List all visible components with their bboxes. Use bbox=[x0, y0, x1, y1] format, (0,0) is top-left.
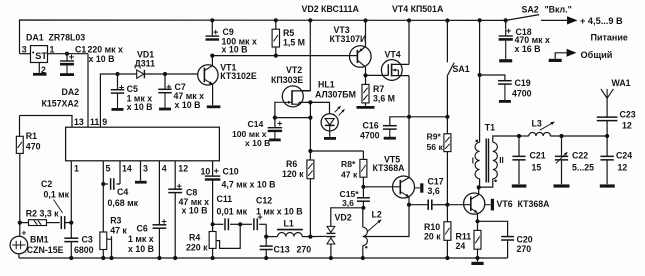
node: VT2 source / HL1 junction bbox=[308, 100, 312, 104]
node: C3 on ground rail bbox=[69, 256, 73, 260]
node: R11/C20 ground junction bbox=[475, 256, 479, 260]
capacitor C12 1uF bbox=[240, 223, 252, 225]
svg-text:C13: C13 bbox=[274, 244, 290, 254]
svg-text:C3: C3 bbox=[82, 235, 93, 245]
svg-text:C21: C21 bbox=[530, 151, 546, 161]
capacitor C17 3.6 bbox=[409, 204, 427, 206]
switch SA2 with label bbox=[506, 15, 540, 21]
svg-text:3: 3 bbox=[22, 45, 27, 55]
transformer T1 secondary winding II bbox=[493, 136, 519, 142]
svg-text:C4: C4 bbox=[117, 187, 128, 197]
inductor L3 tunable bbox=[529, 132, 551, 136]
svg-text:R2 3,3 к: R2 3,3 к bbox=[26, 209, 59, 219]
capacitor C11 0.01uF bbox=[213, 223, 224, 225]
node: R8 / C15 / VT5 base junction bbox=[361, 185, 365, 189]
ground of C19 bbox=[504, 84, 506, 101]
svg-text:VT4: VT4 bbox=[385, 50, 401, 60]
svg-text:SA2: SA2 bbox=[522, 4, 539, 14]
svg-text:C6: C6 bbox=[137, 224, 148, 234]
ground of C5 bbox=[117, 93, 119, 109]
svg-text:DA1: DA1 bbox=[26, 33, 44, 43]
svg-text:К157ХА2: К157ХА2 bbox=[42, 99, 79, 109]
node: C11/C12/R4 junction bbox=[238, 222, 242, 226]
capacitor C3 6800 bbox=[70, 223, 72, 239]
ground of R7 bbox=[357, 106, 375, 109]
microphone BM1 CZN-15E bbox=[10, 236, 28, 254]
capacitor C1 220uF bbox=[66, 54, 68, 61]
node: R2 branch on left rail bbox=[18, 221, 22, 225]
ground of common output bbox=[549, 59, 562, 62]
svg-text:15: 15 bbox=[532, 162, 542, 172]
svg-text:270: 270 bbox=[517, 244, 532, 254]
capacitor C18 470uF bbox=[505, 20, 507, 36]
svg-text:220 к: 220 к bbox=[186, 242, 208, 252]
svg-text:4700: 4700 bbox=[360, 131, 380, 141]
node: R3 on ground rail bbox=[101, 256, 105, 260]
node: R10 on ground rail bbox=[445, 256, 449, 260]
node: C13 on ground rail bbox=[264, 256, 268, 260]
capacitor C9 100uF bbox=[211, 20, 213, 36]
svg-text:КТ3107И: КТ3107И bbox=[330, 34, 367, 44]
svg-text:АЛ307БМ: АЛ307БМ bbox=[315, 89, 356, 99]
svg-text:C22: C22 bbox=[572, 151, 588, 161]
node: C6 on ground rail bbox=[157, 256, 161, 260]
svg-text:VT4 КП501А: VT4 КП501А bbox=[392, 4, 444, 14]
svg-text:4: 4 bbox=[162, 164, 167, 174]
svg-text:C1: C1 bbox=[75, 44, 86, 54]
capacitor C24 12 bbox=[606, 136, 608, 156]
ground of C14 bbox=[274, 131, 276, 140]
svg-text:II: II bbox=[499, 156, 504, 165]
svg-text:0,68 мк: 0,68 мк bbox=[108, 198, 139, 208]
transistor VT6 KT368A bbox=[464, 193, 485, 214]
node: C8 on ground rail bbox=[173, 256, 177, 260]
svg-text:20 к: 20 к bbox=[424, 232, 441, 242]
ground of C7 bbox=[164, 93, 166, 109]
node: top rail junction VT4 drain bbox=[407, 18, 411, 22]
wire: R4 tap loop to C11/C12 node bbox=[216, 224, 240, 248]
node: top rail junction C18 / SA2 contact bbox=[504, 18, 508, 22]
LED HL1 AL307BM bbox=[310, 102, 329, 113]
svg-text:КТ368А: КТ368А bbox=[373, 163, 406, 173]
node: top rail junction R5 bbox=[274, 18, 278, 22]
svg-text:КП303Е: КП303Е bbox=[271, 75, 303, 85]
node: top rail junction VT3 emitter bbox=[363, 18, 367, 22]
svg-text:C12: C12 bbox=[256, 196, 272, 206]
node: VT5 emitter junction bbox=[407, 203, 411, 207]
svg-text:270: 270 bbox=[297, 244, 312, 254]
ground of HL1 bbox=[324, 137, 336, 140]
svg-text:1 мк x 10 В: 1 мк x 10 В bbox=[256, 206, 303, 216]
svg-text:VT2: VT2 bbox=[286, 65, 302, 75]
node: top rail junction SA1 bbox=[445, 18, 449, 22]
svg-text:56 к: 56 к bbox=[427, 142, 444, 152]
svg-text:VT6: VT6 bbox=[497, 199, 513, 209]
ground of C24 bbox=[600, 184, 615, 187]
voltage regulator DA1 ZR78L03 box bbox=[31, 46, 48, 63]
resistor R9* 56k bbox=[444, 134, 451, 152]
svg-text:6800: 6800 bbox=[74, 245, 94, 255]
svg-text:9: 9 bbox=[102, 117, 107, 127]
svg-text:BM1: BM1 bbox=[30, 235, 49, 245]
svg-text:C20: C20 bbox=[517, 234, 533, 244]
switch SA1 bbox=[446, 21, 448, 63]
node: C16 junction on VT4 source line bbox=[407, 115, 411, 119]
svg-text:VD2: VD2 bbox=[335, 213, 352, 223]
svg-text:120 к: 120 к bbox=[282, 169, 304, 179]
antenna WA1 bbox=[601, 89, 607, 98]
transistor VT5 KT368A bbox=[393, 176, 415, 198]
varicap pair VD2 KVS111A bbox=[327, 226, 335, 232]
capacitor C14 100uF bbox=[274, 118, 276, 128]
node: R3 tap on ground rail bbox=[109, 256, 113, 260]
resistor R2 3.3k bbox=[20, 222, 29, 224]
svg-text:0,01 мк: 0,01 мк bbox=[217, 206, 248, 216]
node: C15 / VD2 / L2 junction bbox=[361, 206, 365, 210]
ground of VT1 emitter bbox=[207, 105, 221, 108]
wire: IC pin 9 from C5/VD1 node bbox=[100, 74, 117, 127]
node: L2 on ground rail bbox=[361, 256, 365, 260]
node: C23/C24 junction bbox=[605, 134, 609, 138]
node: VD2 on ground rail bbox=[329, 256, 333, 260]
ground of C21 bbox=[512, 184, 527, 187]
svg-text:L2: L2 bbox=[372, 209, 382, 219]
node: C4 junction on pin5 wire bbox=[101, 182, 105, 186]
svg-text:1: 1 bbox=[50, 45, 55, 55]
svg-text:C14: C14 bbox=[248, 119, 264, 129]
svg-text:C10: C10 bbox=[223, 166, 239, 176]
svg-text:+: + bbox=[22, 227, 27, 237]
wire: IC pin 5 down to R3 bbox=[102, 161, 104, 232]
svg-text:х 16 В: х 16 В bbox=[515, 44, 541, 54]
VT5 case electrode bar bbox=[415, 187, 421, 189]
svg-text:5: 5 bbox=[106, 164, 111, 174]
wire: C14 node to VD2 bias line bbox=[275, 117, 311, 119]
svg-text:C16: C16 bbox=[363, 120, 379, 130]
capacitor C20 270 parallel loop bbox=[478, 221, 508, 236]
wire: IC pin 1 down bbox=[70, 161, 72, 223]
svg-text:SA1: SA1 bbox=[453, 64, 470, 74]
svg-text:+ 4,5...9 В: + 4,5...9 В bbox=[580, 16, 623, 26]
resistor R6 120k bbox=[307, 160, 314, 179]
node: C17 / R10 / VT6 base junction bbox=[445, 203, 449, 207]
node: L1 / VD2 mid / R6 junction bbox=[308, 235, 312, 239]
capacitor C19 4700 bbox=[480, 75, 505, 81]
capacitor C15* 3.6 bbox=[362, 187, 364, 198]
wire: VD1 cathode to VT1 base bbox=[144, 73, 198, 75]
pin 1 of DA1 bbox=[48, 53, 68, 55]
svg-text:х 10 В: х 10 В bbox=[182, 206, 208, 216]
svg-text:3,6: 3,6 bbox=[428, 186, 440, 196]
node: T1 windings / VT6 collector junction bbox=[477, 185, 481, 189]
node: bias line junction bbox=[308, 116, 312, 120]
node: C22 junction bbox=[559, 134, 563, 138]
capacitor C21 15 bbox=[518, 136, 520, 156]
svg-text:х 10 В: х 10 В bbox=[175, 100, 201, 110]
svg-text:12: 12 bbox=[178, 164, 188, 174]
ground of C1 bbox=[66, 64, 68, 74]
wire: T1 primary feed from top rail bbox=[479, 20, 481, 142]
callout line from C2 label to capacitor bbox=[54, 200, 63, 213]
svg-text:11: 11 bbox=[90, 117, 99, 127]
svg-text:КТ368А: КТ368А bbox=[518, 199, 551, 209]
ground of C22 bbox=[554, 184, 570, 187]
resistor R7 3.6M bbox=[365, 75, 367, 84]
wire: IC pin 12 down / capacitor C8 47uF bbox=[174, 161, 176, 189]
ground wire of IC pin 3 bbox=[140, 161, 142, 181]
capacitor C13 270 bbox=[265, 237, 267, 247]
svg-text:R6: R6 bbox=[286, 159, 297, 169]
wire: L2 tap to VT5 emitter line bbox=[363, 205, 409, 237]
svg-text:12: 12 bbox=[618, 162, 628, 172]
svg-text:DA2: DA2 bbox=[62, 87, 80, 97]
svg-text:13: 13 bbox=[74, 117, 84, 127]
node: IC pin1 / C2 / C3 junction bbox=[69, 221, 73, 225]
svg-text:3,6: 3,6 bbox=[342, 198, 354, 208]
inductor L2 tunable bbox=[362, 208, 364, 227]
node: C21 junction bbox=[517, 134, 521, 138]
wire: VT5 base from R8/C15 node bbox=[363, 186, 400, 188]
VT6 case electrode bar bbox=[485, 204, 491, 206]
capacitor C4 0.68uF bbox=[103, 183, 108, 185]
capacitor C16 4700 bbox=[390, 117, 409, 126]
common output arrow bbox=[555, 53, 566, 59]
svg-text:C24: C24 bbox=[616, 151, 632, 161]
svg-text:КТ3102Е: КТ3102Е bbox=[220, 71, 257, 81]
trimmer capacitor C22 5...25 bbox=[561, 136, 563, 156]
svg-text:0,1 мк: 0,1 мк bbox=[44, 189, 70, 199]
wire: IC pin 4 down / capacitor C6 1uF bbox=[158, 161, 160, 225]
transformer T1 core bbox=[485, 139, 487, 183]
resistor R10 20k bbox=[446, 205, 448, 222]
svg-text:CZN-15E: CZN-15E bbox=[27, 245, 64, 255]
svg-text:12: 12 bbox=[622, 120, 632, 130]
svg-text:1,5 М: 1,5 М bbox=[283, 37, 305, 47]
svg-text:10: 10 bbox=[201, 166, 211, 176]
svg-text:х 10 В: х 10 В bbox=[127, 102, 153, 112]
node: top rail junction T1 primary bbox=[478, 18, 482, 22]
transistor VT3 KT3107I bbox=[350, 46, 372, 68]
svg-text:х 10 В: х 10 В bbox=[128, 244, 154, 254]
node: C1 junction bbox=[65, 52, 69, 56]
supply output arrow +4.5...9V bbox=[567, 16, 578, 24]
svg-text:C9: C9 bbox=[223, 27, 234, 37]
svg-text:4700: 4700 bbox=[512, 89, 532, 99]
wire: VT3 collector to VT4 gate bbox=[366, 74, 389, 76]
svg-text:C11: C11 bbox=[217, 194, 233, 204]
svg-text:L1: L1 bbox=[284, 219, 294, 229]
bottom ground rail bbox=[19, 257, 508, 259]
svg-text:I: I bbox=[472, 157, 474, 166]
wire: pin13 feed from left rail bbox=[20, 116, 73, 128]
chassis ground of output stage bbox=[477, 258, 479, 262]
svg-text:C2: C2 bbox=[41, 179, 52, 189]
left rail: from pin13 feed down to BM1 bbox=[19, 116, 21, 137]
svg-text:HL1: HL1 bbox=[318, 80, 335, 90]
svg-text:4,7 мк х 10 В: 4,7 мк х 10 В bbox=[222, 179, 276, 189]
wire: +collector rail to VT3 base bbox=[212, 55, 357, 57]
svg-text:Д311: Д311 bbox=[135, 59, 156, 69]
wire: R8 branch bbox=[310, 150, 363, 152]
wire: VT2 gate down to C14 node bbox=[275, 102, 277, 117]
wire: T1 secondary output line bbox=[519, 135, 529, 137]
svg-text:х 10 В: х 10 В bbox=[89, 54, 115, 64]
wire: C12 to L1 node bbox=[265, 224, 267, 236]
svg-text:1: 1 bbox=[74, 164, 79, 174]
node: L1 / C13 junction bbox=[264, 235, 268, 239]
trimmer resistor R3 47k bbox=[100, 232, 107, 250]
svg-text:3,6 М: 3,6 М bbox=[373, 93, 395, 103]
svg-text:R8*: R8* bbox=[341, 159, 356, 169]
node: VT6 emitter junction bbox=[475, 219, 479, 223]
svg-text:х 10 В: х 10 В bbox=[245, 138, 270, 148]
node: C19 branch bbox=[478, 73, 482, 77]
node: top rail junction VT2 drain branch bbox=[308, 18, 312, 22]
node: VT1 collector junction bbox=[210, 54, 214, 58]
resistor R8* 47k bbox=[362, 151, 364, 159]
resistor R1 470 bbox=[16, 136, 23, 153]
svg-text:47 к: 47 к bbox=[341, 169, 358, 179]
wire: +3V from DA1 pin1 to IC pin 11 bbox=[67, 53, 88, 55]
wire: VT6 base bbox=[447, 204, 470, 206]
svg-text:WA1: WA1 bbox=[612, 78, 631, 88]
node: C7 junction bbox=[163, 72, 167, 76]
svg-text:14: 14 bbox=[122, 164, 132, 174]
diode VD1 D311 bbox=[118, 73, 137, 75]
svg-text:R4: R4 bbox=[189, 233, 200, 243]
node: SA1 line / C16 line junction bbox=[445, 115, 449, 119]
svg-text:470: 470 bbox=[26, 142, 41, 152]
svg-text:x 10 В: x 10 В bbox=[222, 45, 248, 55]
transistor VT4 KP501A MOSFET bbox=[381, 60, 402, 81]
svg-text:Питание: Питание bbox=[591, 33, 628, 43]
wire: IC pin 10 down / capacitor C10 4.7uF bbox=[212, 161, 214, 176]
capacitor C2 0.1uF bbox=[60, 216, 62, 229]
wire: VT4 source down to VT5 collector bbox=[408, 76, 410, 178]
svg-text:3: 3 bbox=[143, 164, 148, 174]
resistor R5 1.5M bbox=[275, 20, 277, 29]
node: R5 bottom junction bbox=[274, 54, 278, 58]
wire: IC pin 14 down to C4 bbox=[119, 161, 121, 184]
node: top rail junction C9 bbox=[210, 18, 214, 22]
wire: VD2 midpoint to L1 node bbox=[310, 235, 326, 237]
svg-text:ZR78L03: ZR78L03 bbox=[49, 33, 86, 43]
svg-text:5...25: 5...25 bbox=[572, 162, 594, 172]
IC DA2 K157XA2 body bbox=[66, 127, 220, 161]
node: C14 / gate junction bbox=[273, 116, 277, 120]
pin 3 of DA1 bbox=[20, 53, 31, 55]
ground of C16 bbox=[389, 129, 391, 138]
wire: to VD2 anode bbox=[331, 208, 364, 227]
node: R8 branch junction bbox=[308, 149, 312, 153]
HL1 emission arrows bbox=[335, 106, 341, 112]
resistor R11 24 bbox=[477, 221, 479, 230]
svg-text:220 мк х: 220 мк х bbox=[88, 44, 123, 54]
svg-text:C23: C23 bbox=[620, 110, 636, 120]
transistor VT1 KT3102E bbox=[198, 65, 218, 85]
svg-text:24: 24 bbox=[456, 241, 466, 251]
svg-text:"Вкл.": "Вкл." bbox=[545, 4, 572, 14]
svg-text:ST: ST bbox=[35, 51, 47, 61]
svg-text:R1: R1 bbox=[26, 131, 37, 141]
node: VT3 collector / R7 / VT4 gate junction bbox=[363, 73, 367, 77]
trimmer resistor R4 220k bbox=[209, 232, 216, 249]
svg-text:R9*: R9* bbox=[427, 131, 442, 141]
svg-text:C17: C17 bbox=[428, 177, 444, 187]
svg-text:L3: L3 bbox=[532, 118, 542, 128]
inductor L1 with core bbox=[266, 236, 277, 238]
node: C5 junction bbox=[115, 72, 119, 76]
wire: C16 node to SA1 line bbox=[409, 116, 447, 118]
pin 2 of DA1 with ground bbox=[38, 63, 40, 73]
transformer T1 primary winding I bbox=[475, 142, 480, 178]
svg-text:C19: C19 bbox=[515, 78, 531, 88]
wire: bias line down to R6 bbox=[309, 118, 311, 160]
svg-text:47 к: 47 к bbox=[110, 225, 127, 235]
svg-text:R10: R10 bbox=[424, 222, 440, 232]
wire: supply branch to VT2 drain bbox=[302, 20, 310, 90]
svg-text:1 мк х: 1 мк х bbox=[128, 234, 154, 244]
node: R4 on ground rail bbox=[211, 256, 215, 260]
node: C11 branch junction bbox=[211, 222, 215, 226]
capacitor C7 47uF bbox=[164, 74, 166, 89]
capacitor C23 12 bbox=[606, 121, 608, 136]
svg-text:T1: T1 bbox=[485, 123, 495, 133]
capacitor C5 1uF bbox=[117, 74, 119, 90]
wire: source node down to bias node bbox=[309, 102, 311, 117]
svg-text:R3: R3 bbox=[110, 216, 121, 226]
svg-text:VD2 КВС111А: VD2 КВС111А bbox=[302, 4, 360, 14]
svg-text:Общий: Общий bbox=[581, 50, 613, 60]
transistor VT2 KP303E JFET bbox=[282, 86, 303, 107]
wire: top supply rail from top-left corner to SA2 contact bbox=[20, 20, 506, 54]
ground of C18 bbox=[505, 39, 507, 60]
